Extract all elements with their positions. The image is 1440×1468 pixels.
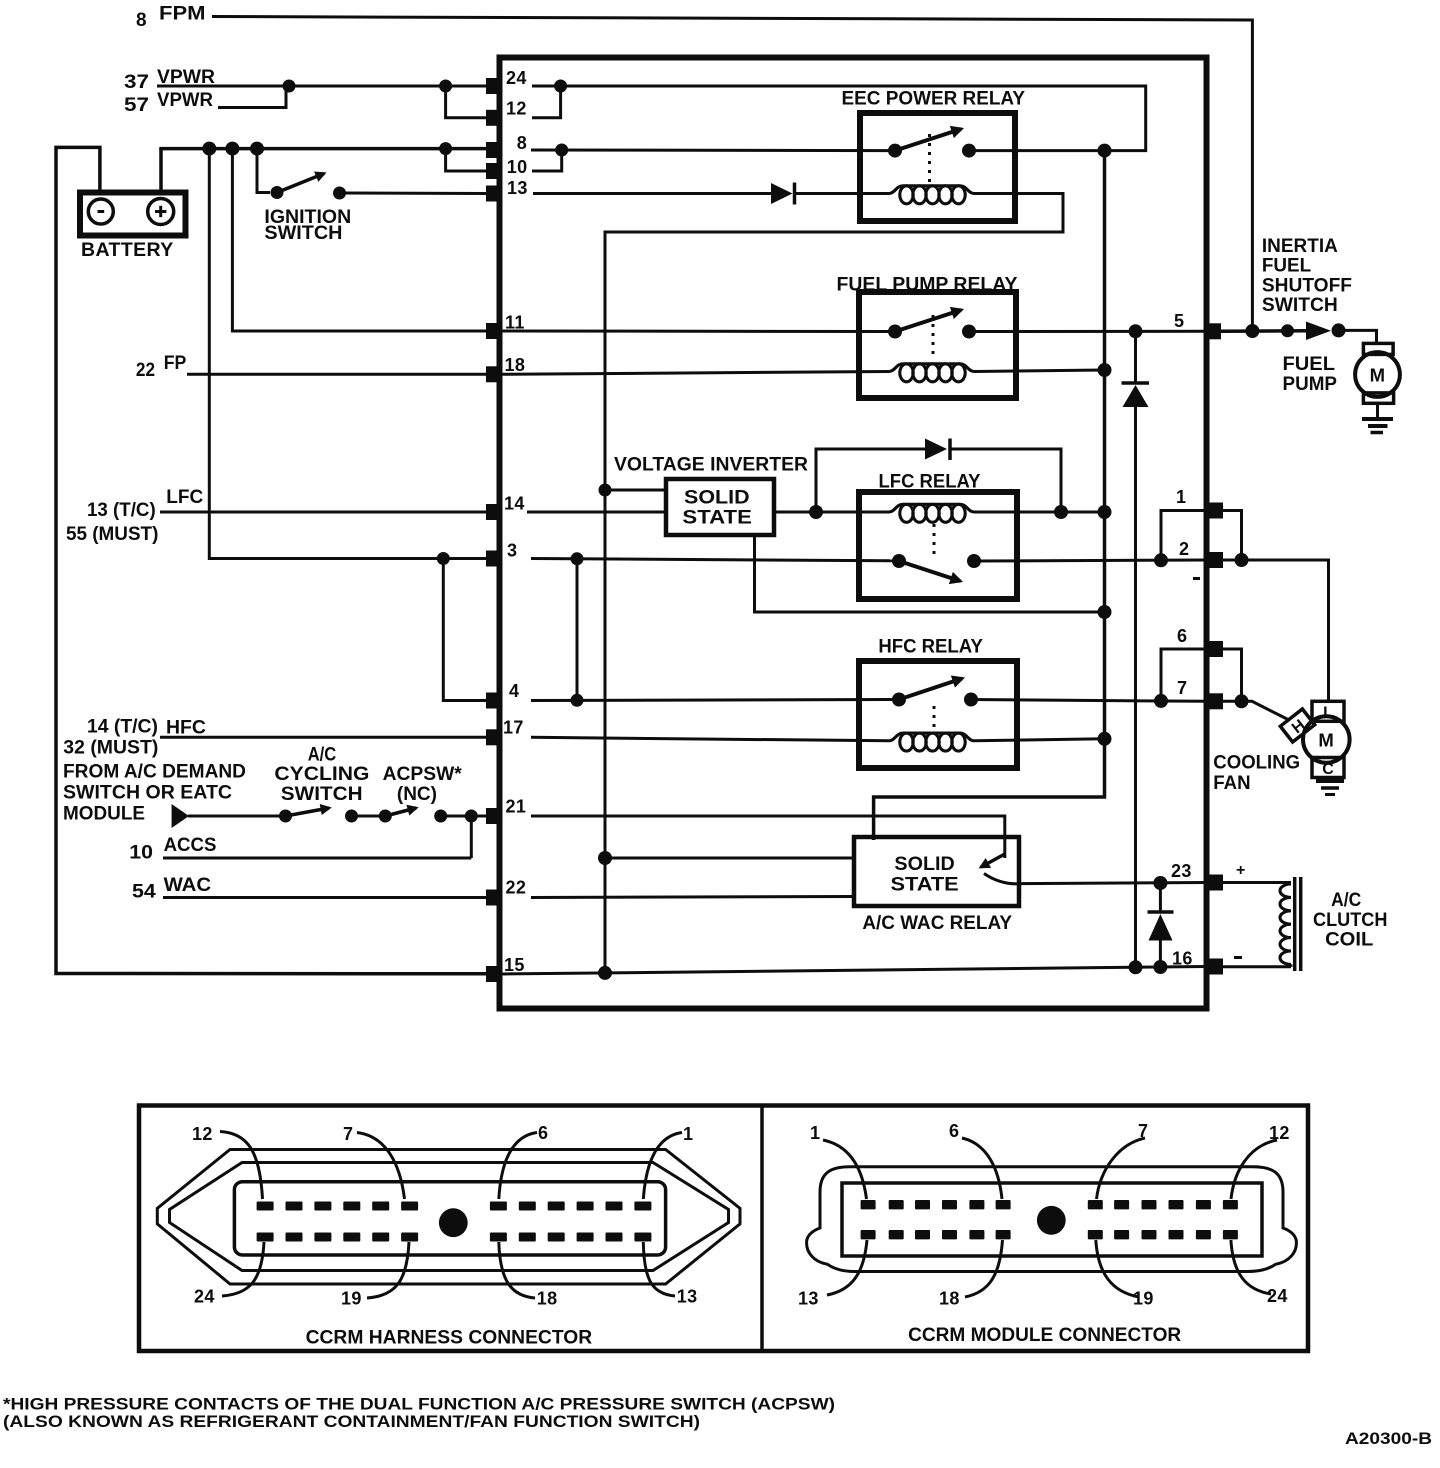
wire bracket up to pin 6 (1161, 649, 1206, 701)
svg-text:22: 22 (136, 360, 155, 381)
wire pin 17 to HFC relay coil (531, 737, 889, 741)
svg-text:6: 6 (1177, 626, 1187, 646)
svg-text:13: 13 (507, 178, 528, 198)
tick mark below pin 2 (1193, 577, 1200, 580)
J1 pin 19 label and leader (341, 1242, 409, 1309)
node input arrow from A/C demand (172, 804, 189, 828)
svg-text:8: 8 (517, 133, 527, 153)
svg-text:SWITCH: SWITCH (264, 223, 342, 244)
wire HFC relay output to pin 7 (971, 700, 1206, 702)
junction VPWR branch to pin 12 (439, 80, 452, 93)
wire ACCS (163, 857, 471, 860)
wire inertia switch to fuel pump motor (1344, 330, 1377, 344)
ACPSW switch S3 (NC) (379, 764, 463, 823)
svg-text:*HIGH PRESSURE CONTACTS OF THE: *HIGH PRESSURE CONTACTS OF THE DUAL FUNC… (3, 1395, 835, 1414)
svg-text:CCRM MODULE CONNECTOR: CCRM MODULE CONNECTOR (908, 1325, 1181, 1346)
svg-text:CCRM HARNESS CONNECTOR: CCRM HARNESS CONNECTOR (306, 1328, 593, 1349)
svg-text:5: 5 (1174, 311, 1184, 331)
J1 center hole (439, 1208, 468, 1237)
pin 15 (486, 955, 525, 982)
wire pin 24 to internal VPWR bus (532, 85, 561, 88)
junction outside pins 6/7 (1235, 694, 1249, 708)
junction battery bus / pin-3 branch (202, 142, 216, 156)
junction EEC contact output / main VPWR vertical bus (1098, 144, 1112, 158)
wire ground rail to inverter input (605, 489, 666, 492)
svg-text:MODULE: MODULE (63, 804, 145, 825)
svg-text:14: 14 (504, 494, 525, 514)
svg-text:CYCLING: CYCLING (274, 764, 369, 785)
svg-text:6: 6 (949, 1121, 959, 1141)
junction fuel pump diode / ground bus (1129, 960, 1143, 974)
J1 pin 6 label and leader (499, 1123, 549, 1199)
junction inverter output / diode loop (809, 505, 823, 519)
svg-text:1: 1 (683, 1124, 693, 1144)
CCRM module connector J2 outline (807, 1167, 1297, 1272)
battery B1 (80, 193, 186, 262)
junction pin-6 bracket inside (1154, 694, 1168, 708)
svg-text:FP: FP (164, 353, 187, 374)
wire HFC coil return to VPWR bus (974, 739, 1105, 741)
wire pin 2 to cooling fan L terminal (1223, 560, 1329, 701)
A/C cycling switch S2 (274, 745, 369, 823)
ignition switch S1 (264, 174, 351, 244)
svg-text:13: 13 (798, 1289, 819, 1309)
wire bracket down to pin 4 (443, 559, 486, 701)
junction outside pins 1/2 (1235, 553, 1249, 567)
junction pin-23 wire / clutch diode (1153, 876, 1167, 890)
J1 pin 12 label and leader (192, 1124, 263, 1199)
svg-text:17: 17 (503, 718, 524, 738)
junction ground rail / WAC input (598, 851, 612, 865)
node FP pin 22 label (136, 353, 187, 381)
svg-text:24: 24 (506, 68, 527, 88)
wire ground rail to WAC input (605, 857, 854, 860)
wire diode CR1 to EEC relay coil (795, 192, 890, 195)
svg-text:FUEL: FUEL (1262, 256, 1312, 277)
cooling fan motor M2 (1213, 701, 1349, 794)
svg-text:FPM: FPM (159, 4, 206, 25)
J2 pin 1 label and leader (810, 1123, 867, 1199)
J2 pin row bottom (861, 1230, 1238, 1239)
wire EEC coil return to ground rail (605, 194, 1063, 972)
junction ACCS joins switch output (465, 810, 478, 823)
junction coil / VPWR bus (1098, 363, 1112, 377)
pin 10 (486, 157, 528, 179)
wire FP to pin 18 (187, 373, 486, 376)
svg-text:7: 7 (343, 1124, 353, 1144)
pin 21 (486, 797, 526, 825)
svg-text:SOLID: SOLID (684, 487, 750, 508)
node VPWR pin 37 label (124, 67, 215, 93)
svg-text:VPWR: VPWR (157, 90, 213, 111)
wire pin 7 to cooling fan H terminal (1223, 701, 1289, 720)
pin 22 (486, 878, 526, 906)
svg-text:(NC): (NC) (397, 784, 437, 805)
node VPWR pin 57 label (124, 90, 213, 116)
node minus mark at pin 16 (1234, 956, 1242, 959)
svg-text:21: 21 (506, 797, 527, 817)
svg-text:SHUTOFF: SHUTOFF (1262, 276, 1352, 297)
svg-text:23: 23 (1171, 861, 1192, 881)
CCRM harness connector J1 outline (157, 1150, 740, 1285)
node A/C demand source labels (63, 761, 246, 824)
pin 4 (486, 681, 519, 709)
J2 pin 19 label and leader (1096, 1240, 1154, 1309)
svg-text:12: 12 (192, 1124, 213, 1144)
pin 24 (486, 68, 527, 94)
wire LFC coil return to VPWR bus (974, 511, 1105, 514)
svg-text:PUMP: PUMP (1283, 374, 1338, 395)
node 5 outside: junction with FPM wire (1245, 324, 1259, 338)
svg-text:COOLING: COOLING (1213, 753, 1300, 774)
svg-text:7: 7 (1177, 678, 1187, 698)
svg-text:C: C (1322, 761, 1334, 778)
svg-text:6: 6 (538, 1123, 548, 1143)
svg-text:STATE: STATE (891, 875, 959, 896)
junction diode loop / coil return (1054, 505, 1068, 519)
svg-text:SWITCH: SWITCH (1262, 295, 1338, 316)
wire branch down to pin 12 (446, 86, 486, 118)
svg-text:HFC RELAY: HFC RELAY (878, 637, 983, 658)
wire pin 5 to inertia switch (1221, 329, 1310, 333)
svg-text:57: 57 (124, 95, 149, 116)
HFC relay K4 (859, 637, 1017, 769)
svg-text:(ALSO KNOWN AS REFRIGERANT CON: (ALSO KNOWN AS REFRIGERANT CONTAINMENT/F… (3, 1412, 700, 1431)
junction ground rail to inverter input (599, 484, 612, 497)
wire inverter low side to VPWR bus (755, 535, 1105, 612)
junction ground rail / ground bus (598, 966, 612, 980)
pin 8 (486, 133, 527, 158)
svg-text:54: 54 (132, 882, 156, 903)
J2 pin 24 label and leader (1231, 1240, 1288, 1306)
LFC relay K3 (859, 472, 1017, 600)
J2 pin row top (861, 1200, 1238, 1209)
svg-text:19: 19 (341, 1289, 362, 1309)
svg-text:LFC: LFC (166, 487, 203, 508)
diode CR4 clutch flyback (1148, 883, 1174, 967)
svg-text:18: 18 (939, 1289, 960, 1309)
svg-text:CLUTCH: CLUTCH (1313, 910, 1387, 931)
svg-text:3: 3 (507, 541, 517, 561)
svg-text:2: 2 (1179, 539, 1189, 559)
voltage inverter U1 (614, 455, 808, 536)
svg-text:19: 19 (1133, 1289, 1154, 1309)
diode CR3 (925, 439, 950, 461)
pin 1 (1176, 487, 1223, 519)
J2 pin 18 label and leader (939, 1240, 1003, 1309)
wire pin 12 bracket to VPWR bus (532, 86, 561, 118)
wire branch to ignition switch (257, 149, 270, 193)
A/C clutch coil L1 (1223, 877, 1387, 971)
J1 pin 7 label and leader (343, 1124, 405, 1199)
wire internal bridge pins 3-4 (576, 559, 579, 701)
svg-text:WAC: WAC (164, 875, 212, 896)
svg-text:14 (T/C): 14 (T/C) (87, 717, 158, 738)
J1 pin 24 label and leader (194, 1242, 264, 1307)
wire diode loop down to LFC coil return (950, 449, 1061, 512)
node LFC labels (66, 487, 203, 545)
junction battery bus / pin-11 branch (225, 142, 239, 156)
wire FPM from pin 8 to inertia switch node (212, 17, 1252, 332)
inertia fuel shutoff switch S4 (1262, 236, 1352, 340)
fuel pump motor M1 (1283, 343, 1400, 403)
junction HFC coil / VPWR bus (1098, 732, 1112, 746)
junction pins 8/10 (555, 144, 568, 157)
svg-text:13: 13 (677, 1287, 698, 1307)
svg-text:FROM A/C DEMAND: FROM A/C DEMAND (63, 761, 246, 782)
pin 11 (486, 313, 525, 340)
pin 12 (486, 99, 527, 126)
pin 18 (486, 355, 525, 382)
wire pin 18 to fuel pump relay coil (502, 372, 889, 375)
svg-text:1: 1 (1176, 487, 1186, 507)
wire battery feed bus to CCRM pin 8 (159, 147, 486, 151)
wire main VPWR vertical bus down to WAC feed (874, 151, 1105, 840)
wire WAC output to pin 23 (1019, 883, 1206, 884)
svg-text:INERTIA: INERTIA (1262, 236, 1338, 257)
svg-text:M: M (1318, 730, 1334, 751)
wire battery positive post to feed bus (159, 149, 163, 193)
node WAC pin 54 label (132, 875, 211, 903)
wire between switches (352, 815, 386, 818)
svg-text:4: 4 (509, 681, 519, 701)
pin 23 (1171, 861, 1223, 891)
junction branch to pin 10 (439, 142, 452, 155)
svg-text:+: + (1236, 862, 1245, 879)
diode CR1 (771, 183, 795, 205)
svg-text:A/C: A/C (308, 745, 337, 766)
ground G1 below fuel pump (1362, 403, 1393, 432)
junction pin4 / internal bridge (571, 694, 584, 707)
svg-text:COIL: COIL (1325, 930, 1374, 951)
ground G2 below cooling fan (1316, 778, 1344, 795)
junction clutch diode / ground bus (1153, 960, 1167, 974)
diode CR2 fuel pump flyback (1122, 331, 1150, 967)
wire ACPSW to pin 21 (441, 815, 486, 818)
J2 pin 12 label and leader (1231, 1123, 1290, 1199)
wire VPWR top bus to EEC relay contact feed (561, 86, 1146, 151)
svg-text:A/C WAC RELAY: A/C WAC RELAY (862, 913, 1012, 934)
svg-text:FUEL: FUEL (1283, 354, 1336, 375)
svg-text:VOLTAGE INVERTER: VOLTAGE INVERTER (614, 455, 808, 476)
svg-text:M: M (1370, 365, 1386, 386)
wire fuel pump relay output to pin 5 (969, 330, 1204, 333)
wire ground bus pin 15 to pin 16 (502, 967, 1206, 975)
pin 17 (486, 718, 524, 746)
junction inverter low side / VPWR bus (1098, 605, 1112, 619)
wire HFC to pin 17 (160, 736, 486, 739)
junction battery bus / ignition branch (250, 142, 264, 156)
pin 14 (486, 494, 525, 521)
svg-text:ACCS: ACCS (164, 835, 217, 856)
J1 pin 1 label and leader (643, 1124, 693, 1199)
wire pin 11 to fuel pump relay switch (502, 330, 895, 334)
pin 16 (1172, 949, 1223, 975)
EEC power relay K1 (842, 89, 1026, 222)
svg-text:15: 15 (504, 955, 525, 975)
node HFC labels (63, 717, 206, 759)
wire to A/C cycling switch (188, 815, 280, 818)
svg-text:BATTERY: BATTERY (81, 239, 174, 261)
svg-text:24: 24 (194, 1287, 215, 1307)
svg-text:24: 24 (1267, 1286, 1288, 1306)
J1 pin 18 label and leader (499, 1242, 558, 1309)
svg-text:11: 11 (505, 313, 525, 333)
wire VPWR 57 joining VPWR 37 (218, 86, 286, 108)
wire branch to pin 11 (232, 149, 486, 331)
wire branch down to pin 10 (446, 149, 486, 171)
wire LFC to pin 14 (160, 511, 486, 514)
J1 pin 13 label and leader (643, 1242, 697, 1307)
junction LFC coil / VPWR bus (1098, 505, 1112, 519)
svg-text:L: L (1323, 705, 1333, 722)
wire pin 3 to LFC relay switch (531, 559, 899, 561)
node ACCS pin 10 label (129, 835, 216, 863)
wire branch to pin 3 (209, 149, 486, 559)
svg-text:18: 18 (537, 1289, 558, 1309)
J2 center hole (1037, 1206, 1066, 1235)
wire pin 10 bracket (532, 150, 562, 171)
wire battery negative to ground bus (56, 147, 486, 973)
junction pin3 / internal bridge (571, 552, 584, 565)
svg-text:STATE: STATE (682, 508, 752, 529)
wire diode loop over LFC coil (816, 449, 925, 512)
pin 3 (486, 541, 517, 567)
svg-text:10: 10 (129, 843, 153, 864)
junction VPWR 37/57 (283, 80, 296, 93)
wire pin 1 outside stub to pin-2 wire (1223, 511, 1242, 561)
svg-text:1: 1 (810, 1123, 820, 1143)
wire pin 6 outside stub (1223, 649, 1242, 701)
wire bracket up to pin 1 (1161, 511, 1206, 561)
wire pin 21 into WAC solid state (531, 816, 1005, 858)
A/C WAC relay U2 solid state (854, 837, 1019, 934)
pin 5 (1174, 311, 1221, 339)
svg-text:FAN: FAN (1213, 773, 1250, 794)
junction pin-5 wire / flyback diode (1129, 324, 1143, 338)
svg-text:ACPSW*: ACPSW* (383, 764, 463, 785)
svg-text:HFC: HFC (166, 718, 206, 739)
svg-text:18: 18 (505, 355, 526, 375)
panel divider (760, 1106, 764, 1352)
pin 2 (1179, 539, 1223, 568)
svg-text:12: 12 (506, 99, 527, 119)
junction pin3 wire / pin4 bracket (437, 552, 450, 565)
wire fuel pump relay coil to VPWR bus (974, 370, 1105, 372)
J2 pin 13 label and leader (798, 1240, 867, 1309)
J2 pin 6 label and leader (949, 1121, 1002, 1199)
fuel pump relay K2 (837, 275, 1018, 399)
wire ACCS riser (470, 816, 473, 858)
junction pins 24/12 (554, 80, 567, 93)
wire LFC relay output to pin 2 (974, 560, 1206, 561)
J1 pin row bottom (257, 1233, 652, 1242)
wire ignition switch to pin 13 (345, 192, 486, 196)
wire pin 22 to WAC input (531, 897, 854, 898)
svg-text:32 (MUST): 32 (MUST) (63, 738, 158, 759)
svg-text:37: 37 (124, 72, 149, 93)
wire pin 13 to diode CR1 (533, 192, 771, 195)
CCRM module outline box (500, 58, 1207, 1009)
wire WAC to pin 22 (163, 896, 486, 899)
svg-text:SWITCH OR EATC: SWITCH OR EATC (63, 783, 232, 804)
pin 7 (1177, 678, 1223, 709)
wire pin 14 to voltage inverter (527, 511, 666, 514)
svg-text:10: 10 (507, 157, 528, 177)
wire VPWR 37 to CCRM pin 24 (157, 85, 486, 88)
pin 6 (1177, 626, 1223, 657)
svg-text:55 (MUST): 55 (MUST) (66, 524, 158, 545)
wire inverter output to LFC coil (774, 511, 889, 514)
svg-text:8: 8 (136, 10, 147, 31)
wire pin 4 to HFC relay switch (531, 700, 899, 701)
wire pin 8 to EEC relay switch (531, 149, 895, 153)
pin 13 (486, 178, 528, 202)
svg-text:SOLID: SOLID (894, 854, 954, 875)
J1 pin row top (257, 1202, 652, 1211)
svg-text:A20300-B: A20300-B (1345, 1430, 1432, 1448)
connector panel frame (139, 1106, 1308, 1352)
node FPM pin 8 label (136, 4, 206, 32)
svg-text:13 (T/C): 13 (T/C) (87, 500, 156, 521)
svg-text:A/C: A/C (1331, 890, 1361, 911)
svg-text:22: 22 (506, 878, 527, 898)
J2 pin 7 label and leader (1097, 1121, 1149, 1199)
svg-text:SWITCH: SWITCH (281, 784, 363, 805)
junction pin-1 bracket inside (1154, 553, 1168, 567)
svg-text:EEC POWER RELAY: EEC POWER RELAY (842, 89, 1026, 110)
